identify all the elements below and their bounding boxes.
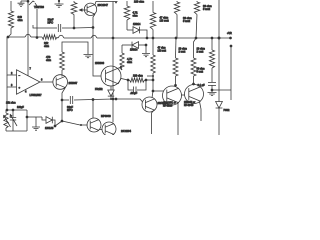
label C3 — [130, 92, 138, 95]
diode D1 1N914 — [133, 27, 140, 34]
resistor R1 640 ohm — [8, 1, 14, 37]
switch S1 — [29, 1, 37, 6]
label R7 — [133, 75, 143, 78]
node Q2 emitter — [61, 99, 64, 102]
node x27 — [26, 116, 29, 119]
rail seg2 — [31, 36, 42, 38]
wire x153 lower — [152, 73, 154, 91]
svg-text:MPS940: MPS940 — [101, 115, 111, 118]
svg-text:+VR: +VR — [227, 32, 232, 35]
node rail x212 — [211, 37, 214, 40]
resistor R4 47ohm — [150, 1, 156, 38]
label L1 — [183, 16, 192, 23]
svg-text:2 watt: 2 watt — [197, 51, 204, 54]
node rail x219 — [218, 37, 221, 40]
node par left — [127, 79, 130, 82]
label S1 — [34, 6, 44, 9]
ground top-mid — [55, 0, 64, 7]
potentiometer R2 — [71, 1, 77, 28]
node Q1 emitter-cap — [92, 26, 95, 29]
resistor R11 — [209, 50, 214, 78]
inductor L2 — [194, 1, 199, 38]
wire Q7 coll — [92, 100, 94, 118]
wire Q6 emitter down — [200, 102, 202, 122]
label 220 ohm top — [134, 0, 144, 4]
label D5 — [45, 127, 54, 130]
wire Q2 emitter — [62, 87, 66, 100]
wire D3 down — [110, 96, 112, 99]
wire x153 mid — [152, 76, 154, 80]
node rail end — [229, 37, 232, 40]
node rail-switch — [36, 36, 39, 39]
wire D5 out — [52, 120, 55, 126]
wire y76 stub — [147, 75, 153, 77]
svg-text:5 watt: 5 watt — [203, 7, 210, 11]
node bus-rail — [112, 37, 115, 40]
rail seg3 — [57, 37, 58, 40]
svg-text:2N3867: 2N3867 — [69, 82, 78, 85]
svg-text:RF-1946: RF-1946 — [184, 104, 194, 107]
transistor Q4 2SA1011 — [142, 97, 157, 112]
capacitor C5 trimmer — [10, 110, 16, 131]
node rail left — [7, 36, 10, 39]
wire Q1 collector — [95, 2, 113, 5]
diode D5 1N4148 — [46, 117, 52, 124]
label watt left — [158, 47, 167, 53]
label R3 — [133, 11, 139, 18]
node x153 b — [152, 90, 155, 93]
arrow C5 — [10, 114, 17, 126]
transistor Q3 2N3906 — [101, 66, 121, 86]
wire Q3 emitter — [118, 79, 128, 84]
wire bus x219 — [218, 0, 220, 38]
node Q3 coll — [120, 66, 122, 68]
svg-text:1N914: 1N914 — [130, 49, 138, 52]
rail hop1 — [25, 34, 31, 37]
resistor R6 4.7k — [120, 45, 124, 70]
wire Q7-Q8 — [99, 128, 102, 130]
wire y117 — [27, 116, 42, 118]
label Q8 — [121, 130, 132, 133]
node x231 a — [230, 45, 233, 48]
svg-text:RF-1625: RF-1625 — [163, 105, 173, 108]
wire to Q7 — [62, 121, 88, 125]
svg-text:5 watt: 5 watt — [183, 19, 190, 23]
svg-text:FR152: FR152 — [95, 88, 103, 91]
label U1 — [30, 94, 43, 97]
rail hop3 — [91, 35, 97, 38]
node rail L2 — [195, 37, 198, 40]
svg-text:1/2 watt: 1/2 watt — [160, 19, 169, 23]
svg-text:LF351/357: LF351/357 — [30, 94, 43, 97]
node y80 b — [152, 79, 155, 82]
wire Q3 collector — [118, 67, 122, 70]
transistor Q5 2SC1971 — [163, 86, 182, 105]
node Q7 base — [80, 124, 82, 126]
wiper arrow R2 — [79, 8, 85, 11]
wire ground to switch — [21, 0, 28, 2]
wire to D5 — [42, 117, 46, 120]
svg-text:1/2 watt: 1/2 watt — [158, 50, 167, 53]
label D2 — [130, 49, 138, 52]
svg-text:2SC1947: 2SC1947 — [98, 4, 109, 7]
wire D1 to rail — [140, 30, 148, 38]
svg-text:220 ohm: 220 ohm — [134, 0, 144, 4]
ground right — [208, 89, 232, 96]
svg-text:ohm: ohm — [18, 18, 23, 22]
label 100uF — [17, 106, 24, 109]
ground bl — [32, 117, 40, 130]
node D1-rail — [146, 37, 149, 40]
label L3 — [46, 55, 51, 62]
wire col1 — [0, 0, 1, 1]
wire x219 lower — [218, 38, 220, 102]
resistor R3 4.7k — [124, 1, 130, 30]
wire col2 — [194, 38, 197, 58]
node bl1 — [6, 109, 9, 112]
node R10 bot — [192, 83, 195, 86]
wire Q1 emitter down — [93, 28, 101, 77]
capacitor C4 0.1uF — [208, 78, 216, 92]
svg-text:.01 µF: .01 µF — [130, 92, 138, 95]
svg-text:2SC2694: 2SC2694 — [121, 130, 132, 133]
wire par to x153 — [146, 79, 153, 81]
node pot-cap — [73, 27, 76, 30]
wire tank top — [62, 42, 88, 54]
wire y99 cont — [113, 98, 116, 100]
wire D4 down — [218, 108, 220, 135]
wire y99 to QA — [116, 99, 142, 102]
wire y99 to Q6 — [93, 98, 113, 101]
wire in- — [7, 37, 17, 75]
svg-text:2 watt: 2 watt — [179, 51, 186, 54]
node x116 — [115, 98, 118, 101]
node top stub — [113, 2, 118, 4]
wire D2 gnd — [145, 45, 147, 53]
resistor R5 22k — [42, 35, 57, 40]
label 10k — [6, 102, 16, 105]
wire Q2e down — [61, 100, 63, 121]
capacitor C3 .01uF — [128, 80, 146, 94]
svg-text:P602: P602 — [224, 109, 230, 112]
node R4-rail — [152, 37, 155, 40]
node rail L1 — [175, 37, 178, 40]
label Q3 — [95, 61, 105, 65]
label U1 pins — [11, 68, 43, 94]
label D1 — [133, 23, 141, 26]
svg-text:5 watt: 5 watt — [197, 71, 204, 74]
svg-text:NPO: NPO — [48, 21, 54, 25]
ground tank — [84, 55, 93, 58]
label Q4 — [158, 102, 168, 105]
arrow R12 — [3, 115, 10, 127]
diode D4 P602 — [216, 102, 223, 109]
svg-text:10k ohm: 10k ohm — [6, 102, 16, 105]
svg-text:TM6/786: TM6/786 — [34, 6, 44, 9]
label C1 value — [48, 18, 54, 25]
transistor Q1 2SC1947 — [84, 3, 97, 15]
inductor L1 — [174, 1, 179, 38]
wire bus x113 — [112, 2, 114, 39]
resistor R10 10ohm — [191, 58, 196, 85]
node x113 bottom — [112, 98, 115, 101]
wire Q5 emitter down — [177, 103, 179, 136]
svg-text:0.1 µF: 0.1 µF — [198, 84, 206, 87]
resistor R7 220 — [130, 78, 145, 82]
wire switch to opamp V+ — [27, 1, 29, 76]
node D5 — [54, 125, 57, 128]
capacitor C1 33pF — [33, 24, 93, 32]
rail hop2 — [58, 35, 64, 38]
wire left rail lower — [6, 87, 8, 110]
wire D2 left — [122, 44, 132, 46]
diode D2 1N914 — [132, 42, 139, 49]
node D3 — [110, 98, 112, 100]
rail left — [8, 36, 25, 38]
label Q6 — [184, 101, 195, 107]
wire QB QC link — [181, 94, 184, 96]
label R5 — [44, 41, 49, 48]
resistor R8 220 — [151, 55, 156, 73]
diode D3 FR152 — [108, 90, 114, 96]
label R6 — [127, 57, 133, 64]
wire U1 out — [40, 81, 53, 83]
node C2 right — [92, 98, 95, 101]
label L2 — [203, 4, 212, 11]
svg-text:ohm: ohm — [46, 58, 51, 62]
svg-text:1N914: 1N914 — [133, 23, 141, 26]
node y121 — [61, 120, 64, 123]
label R4 — [160, 16, 169, 23]
svg-text:ohm: ohm — [133, 14, 138, 18]
wire in+ — [7, 75, 17, 87]
label Q1 — [98, 4, 109, 7]
wire switch to rail — [36, 9, 38, 38]
svg-text:2N3906: 2N3906 — [95, 61, 105, 65]
label C4 — [198, 84, 206, 87]
wire Q1 emitter — [93, 14, 95, 27]
wire Q8 coll — [112, 99, 114, 122]
wire x231 — [230, 46, 232, 100]
capacitor C2 33pF — [62, 96, 93, 104]
node Q7 top — [92, 99, 94, 101]
svg-text:220 ohm: 220 ohm — [133, 75, 143, 78]
node D2 — [145, 44, 148, 47]
svg-text:ohm: ohm — [127, 60, 132, 64]
label D3 — [95, 88, 103, 91]
svg-text:ohm: ohm — [44, 44, 49, 48]
wire x153 to Q4 — [152, 91, 153, 98]
ground top-left — [18, 1, 25, 6]
wire col3 — [211, 38, 213, 50]
svg-text:1N4148: 1N4148 — [45, 127, 54, 130]
label Q7 — [101, 115, 111, 118]
transistor Q8 2SC2694 — [102, 122, 116, 136]
svg-text:NPO: NPO — [67, 108, 73, 112]
rail seg5 — [97, 37, 231, 39]
transistor Q2 2N3867 — [53, 75, 68, 90]
wire Q4 bottom — [152, 110, 155, 134]
wire to D1 — [127, 29, 133, 31]
label +V — [227, 32, 232, 35]
node switch common — [27, 0, 30, 3]
label R1 value — [18, 15, 23, 22]
wire x153 to QB — [153, 90, 164, 92]
label Q2 — [69, 82, 78, 85]
wire x153 upper — [152, 38, 154, 55]
label D4 — [224, 109, 230, 112]
svg-text:100µF: 100µF — [17, 106, 24, 109]
label L4 — [197, 68, 205, 74]
wire y110 — [7, 109, 27, 111]
ground D2 — [142, 54, 150, 57]
label R10 — [197, 48, 205, 54]
wire Q3 to D3 — [110, 86, 112, 90]
node par right — [145, 79, 148, 82]
wire bottom bl — [6, 130, 27, 132]
label R9 — [179, 48, 187, 54]
node x153 a — [152, 75, 154, 77]
inductor L3 470 ohm — [60, 52, 65, 77]
transistor Q7 MPS940 — [87, 118, 101, 132]
wire x27 — [26, 110, 28, 131]
node bl2 — [12, 109, 15, 112]
wire bus x113 lower — [112, 38, 114, 99]
rail seg4 — [64, 37, 91, 39]
node R9 bot — [174, 84, 177, 87]
op-amp U1 LF351 — [17, 70, 41, 94]
transistor Q6 2SC1972 — [185, 85, 204, 104]
potentiometer R12 10k — [4, 110, 8, 131]
resistor R9 10ohm — [173, 38, 178, 87]
label Q5 — [163, 102, 176, 108]
wire D2 right — [139, 44, 147, 46]
label C2 — [67, 105, 73, 112]
wire y126 — [55, 121, 62, 126]
